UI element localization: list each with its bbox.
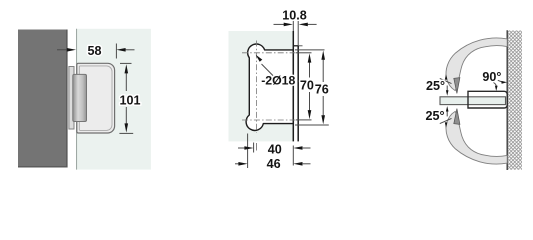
svg-text:101: 101 (119, 94, 140, 108)
svg-text:10.8: 10.8 (282, 8, 307, 22)
svg-text:90°: 90° (482, 70, 501, 84)
svg-text:58: 58 (87, 44, 101, 58)
svg-text:25°: 25° (426, 79, 445, 93)
svg-text:70: 70 (300, 78, 314, 92)
svg-text:25°: 25° (425, 109, 444, 123)
svg-text:-2Ø18: -2Ø18 (261, 74, 295, 88)
svg-text:40: 40 (268, 142, 282, 156)
svg-text:46: 46 (267, 157, 281, 171)
svg-text:76: 76 (315, 83, 329, 97)
